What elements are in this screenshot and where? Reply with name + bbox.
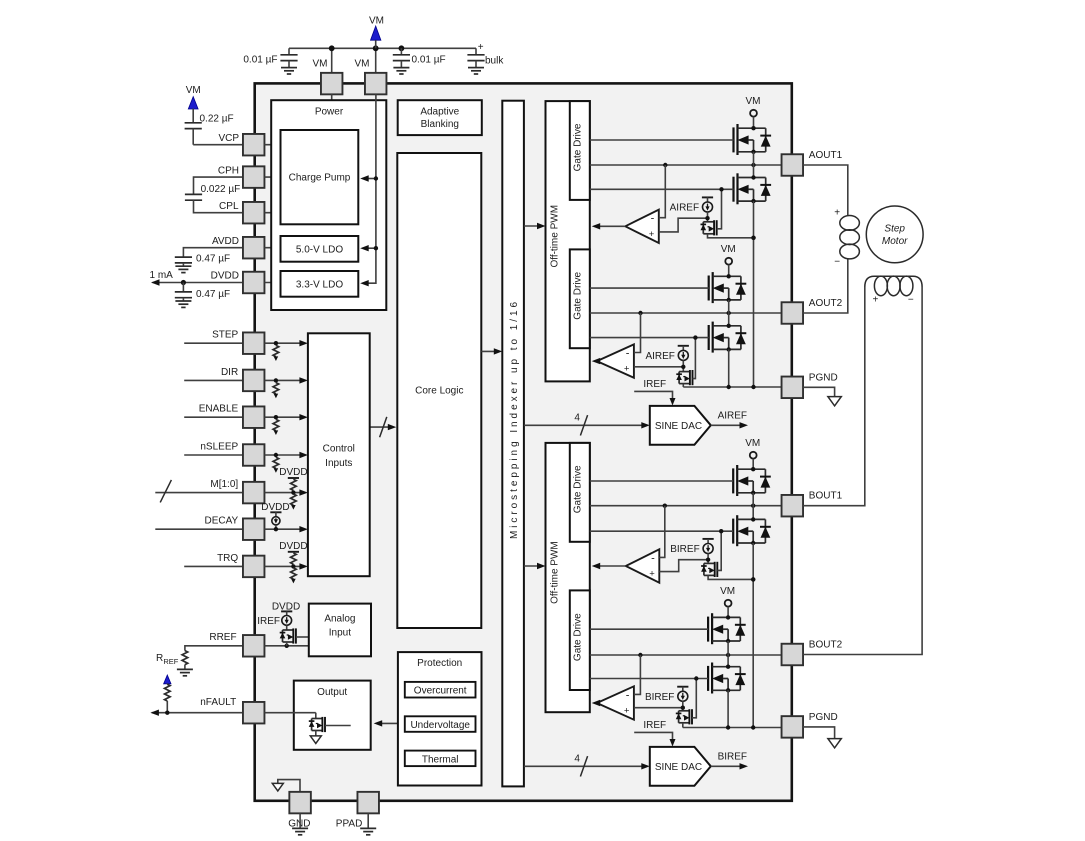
wire Indexer to Off-time PWM B: [524, 563, 546, 569]
svg-text:RREF: RREF: [209, 632, 236, 643]
pulldown resistor below TRQ: [291, 568, 297, 584]
svg-text:-: -: [626, 689, 630, 701]
pullup resistor at nFAULT: [165, 684, 171, 713]
block Gate Drive B2: [570, 590, 590, 690]
pin pad nSLEEP: [243, 444, 265, 466]
svg-text:0.01 µF: 0.01 µF: [243, 55, 277, 66]
wire TRQ to Control Inputs: [264, 563, 308, 569]
inductor motor winding B: [865, 276, 922, 296]
wire B2 sense source: [682, 723, 684, 728]
svg-text:Microstepping Indexer up to 1/: Microstepping Indexer up to 1/16: [509, 299, 520, 539]
transistor IREF mirror FET: [280, 625, 309, 646]
block Off-time PWM B: [546, 443, 590, 712]
wire AOUT1 source chain to PGND: [753, 201, 755, 387]
wire AIREF output arrow: [711, 422, 748, 428]
svg-text:+: +: [872, 295, 878, 306]
svg-text:SINE DAC: SINE DAC: [655, 421, 702, 432]
wire comparator B2 plus input: [634, 707, 683, 709]
wire STEP to Control Inputs: [264, 340, 308, 346]
node junction AOUT2 output tap: [638, 311, 642, 315]
svg-text:0.022 µF: 0.022 µF: [201, 184, 241, 195]
svg-text:VCP: VCP: [218, 133, 239, 144]
wire comparator A2 output arrow: [592, 358, 601, 364]
node junction rail B at BOUT2 bridge: [726, 725, 730, 729]
node junction A2 sense top: [681, 360, 685, 371]
power flag VM (blue arrow): [371, 26, 381, 48]
svg-text:Charge Pump: Charge Pump: [289, 173, 351, 184]
power terminal VM BOUT1: [745, 438, 760, 469]
svg-text:IREF: IREF: [257, 616, 280, 627]
ground at GND pad: [292, 813, 308, 834]
wire Control Inputs to Core Logic with bus slash: [370, 417, 397, 437]
svg-text:-: -: [651, 552, 655, 564]
block SINE DAC A: [650, 406, 711, 445]
pin pad TRQ: [243, 556, 265, 578]
svg-text:DECAY: DECAY: [204, 516, 238, 527]
svg-text:Input: Input: [329, 628, 351, 639]
node junction VM rail / cap stub: [399, 45, 405, 51]
pin pad VM 2: [365, 73, 387, 95]
pin pad AOUT2 (1): [782, 302, 804, 324]
svg-text:CPL: CPL: [219, 201, 239, 212]
wire BOUT2 output node: [590, 654, 782, 656]
wire PGND rail B: [683, 727, 782, 729]
wire VM top rail: [289, 47, 476, 49]
pullup resistor DVDD at M[1:0]: [288, 478, 299, 495]
svg-text:5.0-V LDO: 5.0-V LDO: [296, 244, 343, 255]
svg-text:0.22 µF: 0.22 µF: [200, 114, 234, 125]
pulldown resistor at STEP: [273, 341, 279, 361]
capacitor 0.47 uF at AVDD: [175, 248, 244, 273]
transistor B2 sense FET: [678, 711, 680, 723]
block Charge Pump: [281, 130, 359, 224]
comparator B2: [597, 686, 634, 719]
svg-text:VM: VM: [186, 85, 201, 96]
pin pad DIR: [243, 370, 265, 392]
wire 4-bit bus Indexer to SINE DAC A: [524, 415, 650, 435]
node junction B1 sense top: [706, 554, 710, 564]
wire input TRQ: [184, 565, 243, 567]
svg-text:Gate Drive: Gate Drive: [573, 123, 584, 171]
label Adaptive Blanking: [420, 106, 459, 130]
transistor BOUT2 low-side FET: [707, 666, 709, 691]
wire RREF to Analog Input: [264, 645, 308, 647]
svg-text:IREF: IREF: [643, 379, 666, 390]
ground arrow inside chip at GND: [272, 780, 300, 792]
pin pad BOUT1 (3): [782, 495, 804, 517]
circle Step Motor: [866, 206, 923, 263]
wire VM pad1 to Power block: [331, 94, 333, 100]
block Gate Drive A1: [570, 101, 590, 200]
pin pad PGND (5): [782, 716, 804, 738]
svg-text:nFAULT: nFAULT: [200, 697, 236, 708]
wire AOUT1 low-side gate: [590, 188, 734, 190]
label Analog Input: [324, 614, 355, 639]
wire comparator A2 minus input from output node: [634, 313, 641, 353]
inductor motor winding A: [840, 216, 860, 259]
svg-text:nSLEEP: nSLEEP: [200, 441, 238, 452]
svg-text:−: −: [834, 256, 840, 267]
node junction VM rail / VM arrow: [373, 45, 379, 51]
current source IREF: [281, 611, 292, 625]
node junction AOUT2 output at bridge: [727, 311, 731, 315]
wire comparator B2 minus input from output node: [634, 655, 641, 694]
svg-text:VM: VM: [720, 586, 735, 597]
svg-text:BIREF: BIREF: [645, 692, 674, 703]
current source at DECAY: [270, 512, 281, 531]
transistor A1 sense FET: [702, 222, 704, 234]
wire AOUT1 high-side gate: [590, 139, 734, 141]
svg-text:Motor: Motor: [882, 236, 908, 247]
pulldown resistor at DIR: [273, 378, 279, 398]
svg-text:VM: VM: [721, 244, 736, 255]
wire PGND rail A: [683, 386, 781, 388]
svg-text:Output: Output: [317, 687, 347, 698]
svg-text:AIREF: AIREF: [645, 351, 674, 362]
wire input STEP: [184, 342, 243, 344]
svg-text:4: 4: [574, 413, 580, 424]
svg-text:ENABLE: ENABLE: [199, 404, 239, 415]
block Overcurrent: [405, 682, 476, 698]
svg-text:TRQ: TRQ: [217, 553, 238, 564]
wire input ENABLE: [184, 416, 243, 418]
svg-text:Control: Control: [323, 444, 355, 455]
svg-text:STEP: STEP: [212, 330, 238, 341]
wire RREF external: [185, 646, 244, 651]
svg-text:1 mA: 1 mA: [150, 270, 174, 281]
current source AIREF A2: [678, 346, 689, 361]
wire nFAULT to Output block: [264, 712, 315, 714]
wire comparator B2 output arrow: [592, 700, 601, 706]
svg-text:DVDD: DVDD: [279, 467, 307, 478]
svg-text:Off-time PWM: Off-time PWM: [549, 205, 560, 268]
wire comparator B1 minus input from output node: [659, 506, 665, 558]
svg-text:DVDD: DVDD: [261, 502, 289, 513]
wire A2 sense source: [682, 384, 684, 387]
svg-text:+: +: [624, 364, 630, 375]
pin pad RREF: [243, 635, 265, 657]
wire VCP to Charge Pump: [264, 144, 280, 146]
wire AOUT2 to motor winding A: [803, 259, 848, 313]
wire BOUT2 source chain: [727, 690, 729, 727]
node junction sense B1 join: [751, 577, 755, 581]
wire BOUT2 low-side gate: [590, 678, 708, 680]
transistor BOUT1 high-side FET: [732, 468, 734, 493]
block Undervoltage: [405, 716, 476, 732]
node junction VM rail / pad1 stub: [329, 45, 335, 51]
svg-text:DIR: DIR: [221, 367, 238, 378]
capacitor 0.22 uF at VCP: [185, 123, 244, 145]
pin pad PGND (2): [782, 377, 804, 399]
svg-text:Gate Drive: Gate Drive: [573, 613, 584, 661]
svg-text:+: +: [649, 569, 655, 580]
comparator A2: [597, 344, 634, 377]
wire comparator B1 plus input: [659, 560, 708, 572]
block Gate Drive A2: [570, 249, 590, 348]
pulldown resistor at nSLEEP: [273, 453, 279, 473]
wire M[1:0] to Control Inputs: [264, 489, 308, 495]
pin pad DECAY: [243, 518, 265, 540]
wire PGND B to ground: [803, 727, 835, 739]
power terminal VM AOUT2: [721, 244, 736, 276]
svg-text:CPH: CPH: [218, 165, 239, 176]
current source BIREF B2: [677, 687, 688, 702]
wire A1 sense source: [708, 234, 756, 240]
svg-text:SINE DAC: SINE DAC: [655, 762, 702, 773]
svg-text:0.01 µF: 0.01 µF: [412, 55, 446, 66]
node junction IREF mirror on RREF wire: [285, 644, 289, 648]
wire BOUT1 low-side gate: [590, 530, 733, 532]
capacitor bulk (polarized): [467, 48, 484, 74]
transistor A2 sense FET: [678, 372, 680, 384]
svg-text:0.47 µF: 0.47 µF: [196, 289, 230, 300]
block SINE DAC B: [650, 747, 711, 786]
wire input nSLEEP: [184, 454, 243, 456]
svg-text:Step: Step: [884, 223, 905, 234]
ground arrow below output FET: [310, 736, 321, 744]
node junction AOUT1 output at bridge: [751, 163, 755, 167]
svg-text:VM: VM: [369, 16, 384, 27]
svg-text:Off-time PWM: Off-time PWM: [549, 541, 560, 604]
pulldown resistor below M[1:0]: [291, 494, 297, 510]
wire AOUT2 high-side gate: [590, 287, 709, 289]
wire Indexer to Off-time PWM A: [524, 223, 546, 229]
bus slash M[1:0]: [160, 480, 171, 503]
transistor AOUT1 high-side FET: [732, 127, 734, 152]
wire Core Logic to Indexer: [481, 348, 502, 354]
wire AOUT1 to motor winding A: [803, 165, 848, 215]
wire CPL to Charge Pump: [264, 212, 280, 214]
transistor AOUT2 high-side FET: [708, 276, 710, 301]
svg-text:+: +: [478, 42, 484, 53]
svg-text:DVDD: DVDD: [211, 270, 239, 281]
svg-text:VM: VM: [313, 59, 328, 70]
block Gate Drive B1: [570, 443, 590, 542]
node junction rail A at AOUT2 bridge: [727, 385, 731, 389]
wire stub to VM pad 1: [331, 48, 333, 73]
power flag VM at VCP (blue arrow): [186, 85, 201, 123]
transistor open-drain output FET: [309, 713, 351, 736]
block Power: [271, 100, 386, 310]
svg-text:VM: VM: [745, 438, 760, 449]
wire AOUT2 source chain: [728, 349, 730, 387]
svg-text:4: 4: [574, 754, 580, 765]
svg-text:PGND: PGND: [809, 712, 838, 723]
svg-text:Blanking: Blanking: [421, 119, 459, 130]
svg-text:R: R: [156, 653, 163, 664]
transistor AOUT1 low-side FET: [732, 177, 734, 202]
wire DECAY to Control Inputs: [264, 526, 308, 532]
wire B1 sense source: [708, 575, 755, 581]
node junction rail B at BOUT1 chain: [751, 725, 755, 729]
wire AOUT1 bridge vertical hi-lo: [753, 152, 755, 178]
pin pad CPH: [243, 166, 265, 188]
node junction BOUT2 output tap: [638, 653, 642, 657]
ground at PPAD pad: [360, 813, 376, 834]
pin pad AVDD: [243, 237, 265, 259]
pulldown resistor at ENABLE: [273, 415, 279, 435]
wire BOUT1 to motor winding B: [803, 287, 865, 506]
block 3.3-V LDO: [281, 271, 359, 297]
wire BOUT2 to motor winding B: [803, 287, 922, 655]
svg-text:PPAD: PPAD: [336, 819, 363, 830]
wire CPH to Charge Pump: [264, 176, 280, 178]
svg-text:Thermal: Thermal: [422, 754, 459, 765]
wire input DECAY: [155, 528, 243, 530]
node junction BOUT2 output at bridge: [726, 653, 730, 657]
wire BOUT1 source chain to PGND: [752, 543, 754, 728]
current source BIREF B1: [703, 539, 714, 554]
wire AOUT2 low-side gate: [590, 337, 709, 339]
block Analog Input: [309, 604, 371, 657]
svg-text:BOUT2: BOUT2: [809, 640, 843, 651]
capacitor 0.47 uF at DVDD: [175, 283, 192, 308]
node junction AOUT1 output tap: [663, 163, 667, 167]
svg-text:+: +: [649, 229, 655, 240]
pin pad AOUT1 (0): [782, 154, 804, 176]
node junction BOUT1 output tap: [663, 504, 667, 508]
wire BOUT1 bridge vertical hi-lo: [752, 493, 754, 520]
svg-text:BOUT1: BOUT1: [809, 491, 843, 502]
block Protection: [398, 652, 482, 785]
pullup resistor DVDD at TRQ: [288, 552, 299, 569]
wire VM to Charge Pump arrow: [360, 175, 378, 181]
wire nFAULT external: [150, 710, 244, 716]
svg-text:AIREF: AIREF: [718, 411, 747, 422]
wire AOUT1 output node: [590, 164, 782, 166]
current source AIREF A1: [702, 197, 713, 212]
svg-text:BIREF: BIREF: [670, 544, 699, 555]
svg-text:REF: REF: [163, 657, 178, 666]
resistor RREF external: [177, 651, 193, 676]
transistor BOUT1 low-side FET: [732, 519, 734, 544]
capacitor 0.022 uF between CPH and CPL: [185, 177, 244, 213]
wire nSLEEP to Control Inputs: [264, 452, 308, 458]
svg-text:Power: Power: [315, 107, 344, 118]
wire comparator A1 plus input: [659, 218, 708, 232]
svg-text:+: +: [834, 207, 840, 218]
wire AOUT2 output node: [590, 312, 782, 314]
svg-text:Analog: Analog: [324, 614, 355, 625]
pin pad STEP: [243, 332, 265, 354]
wire PGND A to ground: [803, 387, 835, 396]
wire BIREF output arrow: [711, 763, 748, 769]
svg-text:Undervoltage: Undervoltage: [410, 720, 470, 731]
node junction DVDD cap: [181, 280, 186, 285]
wire DVDD to 3.3V LDO: [264, 282, 280, 284]
wire B1 sense gate to low-side gate: [717, 529, 723, 570]
pin pad DVDD: [243, 272, 265, 294]
wire comparator B1 output arrow: [592, 563, 626, 569]
ground arrow PGND B: [828, 739, 841, 748]
pin pad GND: [289, 792, 311, 814]
comparator B1: [626, 549, 660, 582]
power flag pullup at nFAULT (blue arrow): [164, 675, 171, 684]
svg-text:AIREF: AIREF: [670, 203, 699, 214]
svg-text:bulk: bulk: [485, 56, 504, 67]
svg-text:VM: VM: [746, 96, 761, 107]
label + bulk: [478, 42, 505, 67]
wire BOUT2 bridge vertical hi-lo: [727, 641, 729, 667]
svg-text:IREF: IREF: [643, 720, 666, 731]
svg-text:PGND: PGND: [809, 372, 838, 383]
wire AVDD to 5V LDO: [264, 247, 280, 249]
transistor B1 sense FET: [703, 563, 705, 575]
wire stub to VM pad 2: [375, 48, 377, 73]
arrow VM into 3.3V LDO: [360, 280, 369, 286]
wire IREF into SINE DAC B: [634, 732, 675, 746]
wire comparator A1 output arrow: [592, 223, 626, 229]
block Thermal: [405, 751, 476, 767]
wire A2 sense gate to low-side gate: [693, 335, 698, 378]
node junction B2 sense top: [681, 701, 685, 711]
wire comparator A1 minus input from output node: [659, 165, 666, 218]
block 5.0-V LDO: [281, 236, 359, 262]
wire IREF into SINE DAC A: [634, 391, 675, 405]
node junction rail A at AOUT1 chain: [751, 385, 755, 389]
block Core Logic: [397, 153, 481, 628]
pin pad ENABLE: [243, 406, 265, 428]
wire DVDD external with 1 mA arrow: [151, 279, 244, 285]
block Microstepping Indexer: [502, 101, 524, 787]
svg-text:Gate Drive: Gate Drive: [573, 271, 584, 319]
label Step Motor: [882, 223, 908, 247]
pin pad VCP: [243, 134, 265, 156]
wire DIR to Control Inputs: [264, 377, 308, 383]
svg-text:-: -: [651, 213, 655, 225]
svg-text:-: -: [626, 348, 630, 360]
arrow Undervoltage to Output: [374, 720, 398, 726]
svg-text:Core Logic: Core Logic: [415, 386, 463, 397]
svg-text:+: +: [624, 706, 630, 717]
label Control Inputs: [323, 444, 355, 470]
wire AOUT2 bridge vertical hi-lo: [728, 300, 730, 326]
comparator A1: [625, 210, 659, 243]
capacitor 0.01 uF (left): [280, 48, 297, 74]
svg-text:AOUT2: AOUT2: [809, 298, 843, 309]
wire BOUT1 high-side gate: [590, 480, 733, 482]
transistor AOUT2 low-side FET: [708, 325, 710, 350]
svg-text:Inputs: Inputs: [325, 458, 352, 469]
svg-text:Protection: Protection: [417, 658, 462, 669]
svg-text:VM: VM: [355, 59, 370, 70]
node junction sense A1 join: [751, 236, 755, 240]
ground arrow PGND A: [828, 397, 841, 406]
svg-text:Gate Drive: Gate Drive: [573, 465, 584, 513]
svg-text:DVDD: DVDD: [279, 541, 307, 552]
pin pad PPAD: [357, 792, 379, 814]
svg-text:BIREF: BIREF: [718, 752, 747, 763]
svg-text:3.3-V LDO: 3.3-V LDO: [296, 279, 343, 290]
svg-text:Overcurrent: Overcurrent: [414, 686, 467, 697]
svg-text:Adaptive: Adaptive: [420, 106, 459, 117]
wire comparator A2 plus input: [634, 366, 683, 368]
wire 4-bit bus Indexer to SINE DAC B: [524, 756, 650, 776]
node junction A1 sense top: [705, 212, 709, 222]
svg-text:−: −: [908, 295, 914, 306]
IC chip body outline: [255, 83, 792, 800]
block Adaptive Blanking: [398, 100, 482, 135]
pin pad BOUT2 (4): [782, 644, 804, 666]
svg-text:M[1:0]: M[1:0]: [210, 479, 238, 490]
wire input M[1:0]: [155, 492, 243, 494]
wire input DIR: [184, 379, 243, 381]
wire A1 sense gate to low-side gate: [717, 187, 724, 229]
pin pad CPL: [243, 202, 265, 224]
wire B2 sense gate to low-side gate: [692, 676, 699, 718]
svg-text:0.47 µF: 0.47 µF: [196, 253, 230, 264]
capacitor 0.01 uF (right): [393, 48, 410, 74]
